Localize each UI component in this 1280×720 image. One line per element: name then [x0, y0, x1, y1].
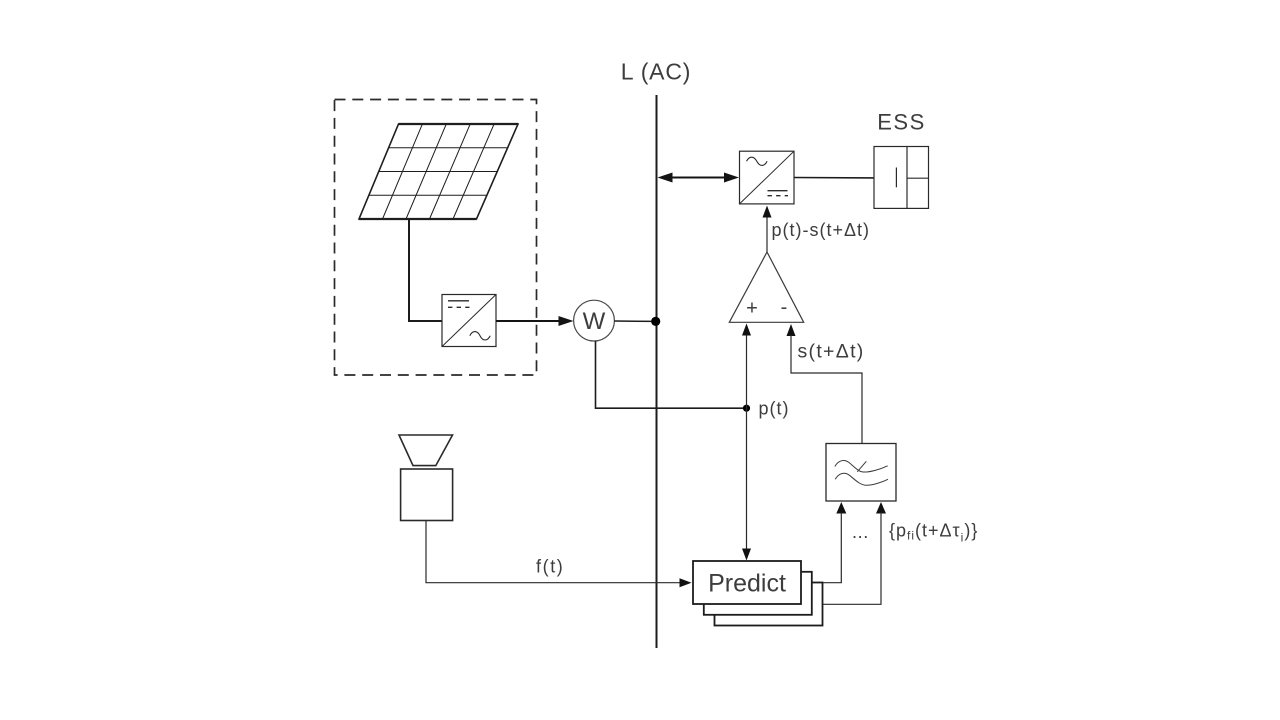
svg-text:p(t): p(t)	[759, 399, 790, 419]
svg-text:W: W	[583, 308, 606, 335]
svg-text:ESS: ESS	[877, 110, 926, 135]
svg-text:p(t)-s(t+Δt): p(t)-s(t+Δt)	[772, 220, 871, 240]
svg-text:Predict: Predict	[708, 570, 786, 598]
svg-text:f(t): f(t)	[536, 557, 564, 577]
svg-text:...: ...	[852, 522, 869, 542]
svg-text:s(t+Δt): s(t+Δt)	[798, 341, 865, 363]
svg-text:-: -	[781, 297, 788, 319]
svg-text:+: +	[746, 298, 758, 320]
svg-text:L (AC): L (AC)	[621, 59, 691, 85]
